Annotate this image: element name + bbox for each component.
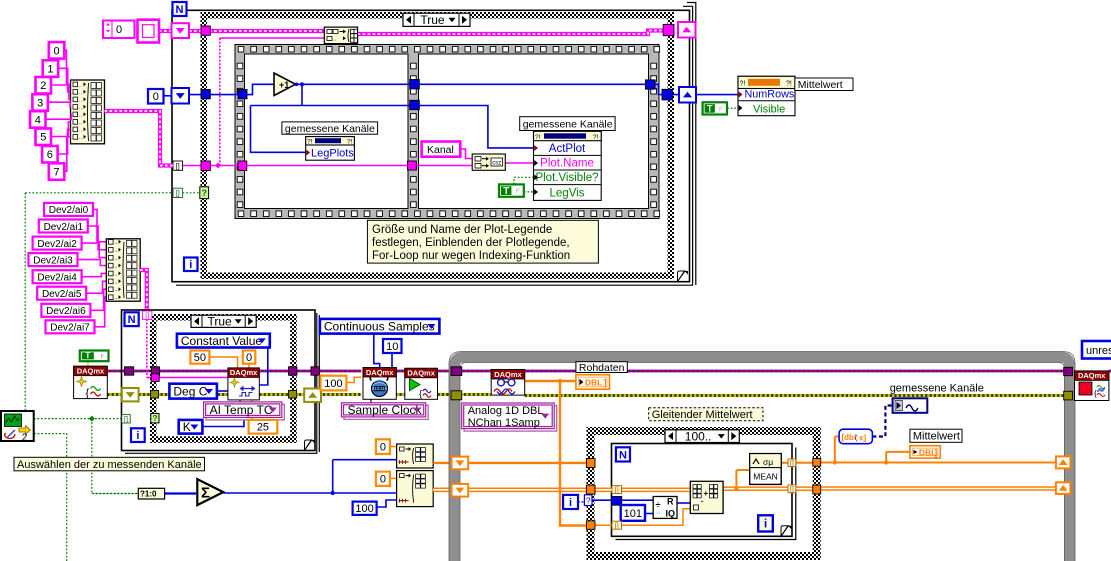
svg-text:?!: ?! [347, 139, 353, 146]
svg-text:DAQmx: DAQmx [494, 370, 522, 379]
svg-text:5: 5 [40, 132, 46, 144]
svg-text:{: { [86, 388, 90, 400]
svg-text:..: .. [79, 135, 83, 141]
svg-text:i: i [136, 430, 139, 442]
svg-text:?: ? [201, 188, 207, 198]
svg-text:?!: ?! [593, 134, 599, 141]
svg-text:F: F [101, 353, 105, 360]
svg-text:N: N [128, 314, 136, 326]
svg-text:festlegen, Einblenden der Plot: festlegen, Einblenden der Plotlegende, [372, 237, 570, 249]
svg-text:..: .. [79, 82, 83, 88]
svg-text:?!: ?! [307, 139, 313, 146]
svg-text:Mittelwert: Mittelwert [913, 431, 960, 443]
svg-text:..: .. [79, 127, 83, 133]
svg-text:1: 1 [47, 64, 53, 76]
svg-text:Dev2/ai5: Dev2/ai5 [42, 289, 82, 300]
svg-text:LegPlots: LegPlots [311, 148, 354, 160]
svg-text:[]: [] [790, 460, 794, 467]
svg-text:0: 0 [53, 45, 59, 57]
svg-text:Größe und Name der Plot-Legend: Größe und Name der Plot-Legende [372, 224, 552, 236]
svg-text:DAQmx: DAQmx [230, 368, 258, 377]
svg-text:True: True [207, 315, 232, 329]
svg-text:··: ·· [656, 510, 661, 517]
svg-text:DAQmx: DAQmx [1078, 371, 1106, 380]
svg-text:10: 10 [386, 341, 398, 353]
svg-text:+1: +1 [279, 80, 289, 90]
svg-text:..: .. [115, 264, 119, 270]
svg-text:0: 0 [246, 352, 252, 364]
svg-text:Deg C: Deg C [173, 384, 207, 398]
svg-text:6: 6 [47, 149, 53, 161]
svg-text:25: 25 [257, 422, 269, 434]
svg-text:gemessene Kanäle: gemessene Kanäle [285, 123, 375, 135]
svg-text:IQ: IQ [666, 509, 676, 519]
svg-text:NumRows: NumRows [745, 89, 795, 101]
svg-text:0: 0 [153, 91, 159, 103]
svg-text:csz: csz [492, 160, 501, 166]
svg-text:NChan 1Samp: NChan 1Samp [468, 417, 540, 429]
svg-text:Dev2/ai2: Dev2/ai2 [37, 239, 77, 250]
svg-text:DAQmx: DAQmx [77, 367, 105, 376]
svg-text:AI Temp TC: AI Temp TC [210, 403, 273, 417]
svg-text:÷: ÷ [656, 500, 661, 510]
svg-text:2: 2 [40, 80, 46, 92]
svg-text:For-Loop nur wegen Indexing-Fu: For-Loop nur wegen Indexing-Funktion [372, 250, 570, 262]
svg-text:100: 100 [324, 378, 342, 390]
svg-text:Mittelwert: Mittelwert [798, 79, 843, 91]
svg-text:Sample Clock: Sample Clock [348, 403, 423, 417]
svg-text:?!: ?! [740, 81, 746, 88]
svg-text:T: T [85, 351, 90, 360]
svg-text:?!: ?! [535, 134, 541, 141]
svg-text:[]: [] [176, 190, 180, 197]
svg-text:0: 0 [380, 442, 386, 454]
svg-text:R: R [667, 497, 674, 507]
svg-text:..: .. [115, 248, 119, 254]
svg-text:F: F [516, 188, 520, 195]
svg-text:0: 0 [380, 474, 386, 486]
svg-text:Dev2/ai0: Dev2/ai0 [49, 205, 89, 216]
svg-text:[]: [] [145, 313, 149, 320]
svg-text:100..: 100.. [685, 429, 712, 443]
svg-text:?: ? [586, 495, 591, 505]
svg-text:{: { [419, 389, 422, 399]
svg-text:..: .. [79, 90, 83, 96]
svg-text:..: .. [115, 295, 119, 301]
svg-text:T: T [707, 104, 713, 115]
svg-text:True: True [420, 13, 445, 27]
svg-text:..: .. [79, 105, 83, 111]
svg-text:..: .. [115, 287, 119, 293]
svg-text:Σ: Σ [201, 485, 210, 502]
svg-text:Gleitender Mittelwert: Gleitender Mittelwert [652, 409, 753, 421]
svg-text:..: .. [79, 112, 83, 118]
svg-text:MEAN: MEAN [753, 472, 778, 482]
svg-text:[]: [] [615, 487, 619, 494]
svg-text:unres: unres [1086, 345, 1111, 357]
svg-text:Plot.Visible?: Plot.Visible? [535, 172, 598, 184]
svg-text:3: 3 [37, 97, 43, 109]
svg-text:Plot.Name: Plot.Name [540, 157, 594, 169]
svg-text:101: 101 [624, 508, 642, 520]
svg-text:DAQmx: DAQmx [407, 369, 435, 378]
svg-text:T: T [503, 186, 509, 197]
svg-text:DAQmx: DAQmx [366, 368, 394, 377]
svg-text:+: + [704, 489, 709, 498]
svg-text:Dev2/ai1: Dev2/ai1 [44, 222, 84, 233]
svg-text:ActPlot: ActPlot [549, 143, 586, 155]
svg-text:4: 4 [35, 114, 41, 126]
svg-text:?!: ?! [786, 81, 792, 88]
svg-text:[]: [] [790, 486, 794, 493]
svg-text:..: .. [79, 97, 83, 103]
svg-text:?1:0: ?1:0 [140, 490, 157, 499]
svg-text:[dbl: [dbl [842, 433, 857, 442]
svg-text:i: i [189, 259, 192, 271]
svg-text:Rohdaten: Rohdaten [579, 362, 625, 374]
svg-text:K: K [183, 420, 191, 434]
svg-text:100: 100 [355, 503, 373, 515]
svg-text:2: 2 [22, 433, 28, 444]
svg-text:Auswählen der zu messenden Kan: Auswählen der zu messenden Kanäle [17, 459, 202, 471]
svg-text:gemessene Kanäle: gemessene Kanäle [523, 118, 613, 130]
svg-text:{: { [1094, 389, 1097, 398]
svg-text:▪·: ▪· [701, 499, 705, 505]
svg-text:..: .. [79, 120, 83, 126]
svg-text:Analog 1D DBL: Analog 1D DBL [468, 405, 544, 417]
svg-text:[]: [] [124, 416, 128, 423]
svg-text:N: N [619, 449, 627, 461]
svg-text:LegVis: LegVis [550, 187, 585, 199]
svg-text:[]: [] [176, 163, 180, 170]
svg-text:..: .. [115, 279, 119, 285]
svg-text:σμ: σμ [763, 457, 773, 467]
svg-text:Continuous Samples: Continuous Samples [324, 320, 435, 334]
svg-text:[]: [] [615, 523, 619, 530]
svg-text:F: F [719, 106, 723, 113]
svg-text:N: N [176, 4, 184, 16]
svg-text:..: .. [115, 240, 119, 246]
svg-text:0: 0 [116, 24, 122, 36]
svg-text:]: ] [934, 447, 937, 457]
svg-text:7: 7 [53, 167, 59, 179]
svg-text:13:11: 13:11 [374, 386, 385, 391]
svg-text:..: .. [115, 256, 119, 262]
svg-text:Kanal: Kanal [427, 144, 454, 156]
svg-text:x]: x] [859, 434, 866, 443]
svg-text:DBL: DBL [585, 377, 602, 387]
svg-text:50: 50 [194, 352, 206, 364]
svg-text:i: i [764, 517, 767, 531]
svg-text:]: ] [604, 377, 607, 387]
svg-text:Dev2/ai7: Dev2/ai7 [50, 323, 90, 334]
svg-text:..: .. [333, 37, 337, 43]
svg-text:Constant Value: Constant Value [181, 334, 262, 348]
svg-text:Dev2/ai3: Dev2/ai3 [33, 255, 73, 266]
svg-text:gemessene Kanäle: gemessene Kanäle [890, 383, 984, 395]
svg-text:Dev2/ai4: Dev2/ai4 [37, 273, 77, 284]
svg-text:?: ? [152, 413, 157, 423]
svg-text:i: i [569, 497, 572, 509]
svg-text:Visible: Visible [753, 103, 785, 115]
svg-text:..: .. [115, 271, 119, 277]
svg-text:Dev2/ai6: Dev2/ai6 [46, 306, 86, 317]
